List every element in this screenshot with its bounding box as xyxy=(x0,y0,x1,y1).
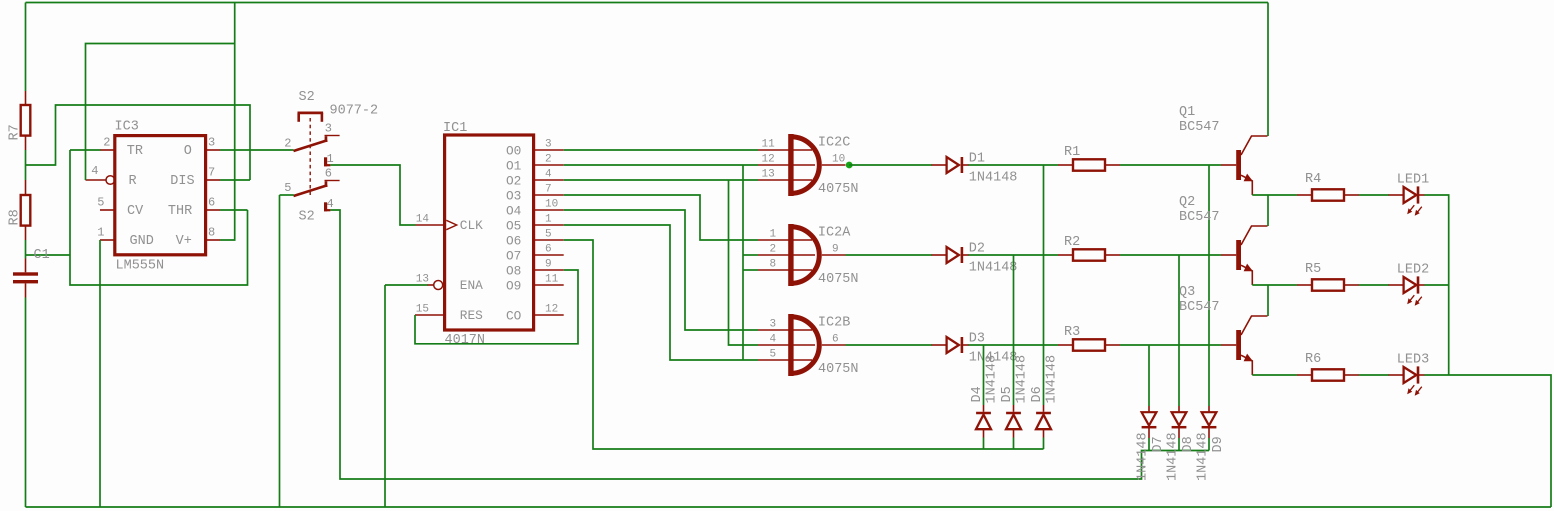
svg-text:1: 1 xyxy=(770,229,777,241)
wire LED3 row to right edge down to ground xyxy=(1425,375,1552,507)
svg-text:Q1: Q1 xyxy=(1179,105,1195,120)
switch pole 5 lever xyxy=(294,185,328,196)
wire R2 to Q2 base xyxy=(1120,254,1221,256)
svg-text:9: 9 xyxy=(832,244,839,256)
svg-text:IC2C: IC2C xyxy=(818,136,850,151)
pin 8 V+ xyxy=(206,239,220,241)
wire O2 to IC2C in3 xyxy=(564,179,758,181)
wire IC2A in2 stub xyxy=(743,254,758,256)
svg-text:R5: R5 xyxy=(1305,262,1321,277)
svg-text:O7: O7 xyxy=(506,249,521,264)
wire R8 to C1 xyxy=(25,240,27,259)
svg-text:14: 14 xyxy=(416,214,430,226)
diode LED3 LED xyxy=(1389,366,1425,395)
svg-text:IC2B: IC2B xyxy=(818,316,850,331)
svg-text:4: 4 xyxy=(91,164,98,178)
svg-text:9: 9 xyxy=(545,259,552,271)
op-amp U IC2C 4075N body xyxy=(788,134,819,196)
svg-text:THR: THR xyxy=(168,204,192,219)
svg-text:4075N: 4075N xyxy=(818,272,859,287)
svg-text:10: 10 xyxy=(545,199,558,211)
svg-text:O9: O9 xyxy=(506,279,521,294)
svg-text:1N4148: 1N4148 xyxy=(969,171,1018,186)
diode LED1 LED xyxy=(1389,186,1425,215)
diode D6 1N4148 xyxy=(1036,405,1051,438)
wire Q2 emitter row xyxy=(1252,284,1297,286)
wire O5 to IC2B in3 xyxy=(564,225,758,360)
pin 11 O9 xyxy=(534,284,564,286)
resistor R6 xyxy=(1297,369,1359,380)
svg-text:D9: D9 xyxy=(1211,436,1226,452)
wire R2 branch down to D8 xyxy=(1178,255,1180,406)
svg-text:6: 6 xyxy=(832,334,839,346)
resistor R1 xyxy=(1058,159,1120,170)
capacitor C1 xyxy=(13,259,38,298)
svg-text:2: 2 xyxy=(545,154,552,166)
pin 7 O3 xyxy=(534,194,564,196)
wire Q1 emitter to Q2 collector xyxy=(1267,195,1269,226)
diode D3 1N4148 xyxy=(932,337,969,353)
svg-text:7: 7 xyxy=(545,184,552,196)
pin 12 input 2 xyxy=(758,164,815,166)
node junction at IC2C output xyxy=(846,162,853,169)
wire top rail down to Q1 collector xyxy=(1267,3,1269,137)
svg-text:Q2: Q2 xyxy=(1179,195,1195,210)
wire top power rail xyxy=(26,2,1269,4)
wire R6 to LED3 xyxy=(1359,374,1389,376)
svg-text:10: 10 xyxy=(832,154,845,166)
wire R7 top to rail xyxy=(25,3,27,92)
pin 1 GND xyxy=(100,239,115,241)
wire R1 to Q1 base xyxy=(1120,164,1221,166)
diode D2 1N4148 xyxy=(932,247,969,263)
svg-text:2: 2 xyxy=(284,137,291,151)
wire Q3 emitter row xyxy=(1252,374,1297,376)
wire junction to DIS loop xyxy=(26,105,251,180)
switch pole 2 lever xyxy=(294,140,328,151)
resistor R3 xyxy=(1058,339,1120,350)
wire R7-R8 junction xyxy=(25,150,27,180)
svg-text:BC547: BC547 xyxy=(1179,300,1220,315)
svg-text:8: 8 xyxy=(208,226,215,240)
resistor R5 xyxy=(1297,279,1359,290)
svg-text:GND: GND xyxy=(130,234,154,249)
wire R3 branch down to D7 xyxy=(1148,345,1150,406)
pin 7 DIS xyxy=(206,179,220,181)
svg-text:5: 5 xyxy=(97,196,104,210)
svg-text:R1: R1 xyxy=(1064,145,1080,160)
wire IC2B out to D3 xyxy=(846,344,933,346)
wire O out to switch xyxy=(220,149,294,151)
pin 8 input 3 xyxy=(758,269,812,271)
wire D3 branch down to D4 xyxy=(983,345,985,405)
svg-text:O4: O4 xyxy=(506,204,522,219)
wire DIS pin to loop xyxy=(220,179,250,181)
pin 15 RES xyxy=(415,314,445,316)
svg-text:9077-2: 9077-2 xyxy=(330,104,379,119)
wire O8 to RES loop xyxy=(415,270,578,344)
wire GND pin down xyxy=(99,240,101,507)
svg-text:BC547: BC547 xyxy=(1179,210,1220,225)
diode D4 1N4148 xyxy=(976,405,991,438)
pin 13 ENA inverted xyxy=(427,281,443,290)
wire contact4 to diode return bus xyxy=(330,210,1209,479)
switch dashed link xyxy=(309,118,311,195)
wire LED1 cathode to return xyxy=(1425,195,1449,375)
wire C1 to ground bus xyxy=(25,298,27,508)
wire O1 branch to IC2A xyxy=(742,165,744,360)
svg-text:R2: R2 xyxy=(1064,235,1080,250)
pin 10 O4 xyxy=(534,209,564,211)
wire O1 to IC2C in2 xyxy=(564,164,758,166)
svg-text:4075N: 4075N xyxy=(818,362,859,377)
svg-text:R7: R7 xyxy=(8,124,23,140)
wire V+ to reset pin xyxy=(220,3,235,241)
svg-text:O5: O5 xyxy=(506,219,521,234)
pin 14 CLK xyxy=(416,220,457,229)
op-amp U IC2A 4075N body xyxy=(788,224,819,286)
svg-text:RES: RES xyxy=(460,308,483,323)
pin 5 input 3 xyxy=(758,359,812,361)
wire R4 to LED1 xyxy=(1359,194,1389,196)
wire Q1 emitter row xyxy=(1252,194,1297,196)
svg-text:1: 1 xyxy=(97,226,104,240)
pin 4 O2 xyxy=(534,179,564,181)
wire IC2A out to D2 xyxy=(846,254,933,256)
pin 1 input 1 xyxy=(758,239,812,241)
wire O6 to lower diode bus xyxy=(564,240,1044,449)
svg-text:2: 2 xyxy=(103,136,110,150)
svg-text:O6: O6 xyxy=(506,234,521,249)
svg-text:1: 1 xyxy=(327,152,334,166)
pin 5 CV xyxy=(100,209,115,211)
pin 2 input 2 xyxy=(758,254,815,256)
svg-text:C1: C1 xyxy=(34,248,50,263)
wire D8 to bus xyxy=(1178,438,1180,451)
svg-text:1: 1 xyxy=(545,214,552,226)
wire D5 to bus xyxy=(1013,438,1015,450)
pin 6 output xyxy=(822,344,846,346)
transistor Q1 BC547 xyxy=(1221,136,1268,195)
pin 3 O0 xyxy=(534,149,564,151)
svg-text:6: 6 xyxy=(325,167,332,181)
svg-text:IC1: IC1 xyxy=(443,121,467,136)
svg-text:4: 4 xyxy=(545,169,552,181)
svg-text:1N4148: 1N4148 xyxy=(1015,355,1030,404)
svg-text:4: 4 xyxy=(327,197,334,211)
wire O0 to IC2C in1 xyxy=(564,149,758,151)
svg-text:S2: S2 xyxy=(299,90,315,105)
pin 4 R inverted xyxy=(86,176,115,185)
svg-text:D7: D7 xyxy=(1151,436,1166,452)
op-amp U IC3 LM555N body xyxy=(115,136,206,255)
wire D2 to R2 xyxy=(969,254,1058,256)
pin 3 O xyxy=(206,149,220,151)
wire Q2 emitter to Q3 collector xyxy=(1267,285,1269,316)
svg-text:12: 12 xyxy=(545,304,558,316)
svg-text:Q3: Q3 xyxy=(1179,285,1195,300)
wire TR-THR vertical xyxy=(70,150,248,285)
wire R5 to LED2 xyxy=(1359,284,1389,286)
svg-text:LED3: LED3 xyxy=(1397,353,1429,368)
wire D7 to bus xyxy=(1148,438,1150,451)
svg-text:CLK: CLK xyxy=(460,218,483,233)
wire IC2C out to D1 xyxy=(849,164,932,166)
svg-text:D4: D4 xyxy=(970,386,985,402)
svg-text:13: 13 xyxy=(416,274,429,286)
svg-text:11: 11 xyxy=(762,139,776,151)
resistor R7 xyxy=(21,91,31,150)
diode D7 1N4148 xyxy=(1142,406,1157,438)
svg-text:4: 4 xyxy=(770,334,777,346)
wire contact1 to CLK xyxy=(330,165,415,225)
svg-text:R8: R8 xyxy=(8,209,23,225)
svg-text:O: O xyxy=(184,144,192,159)
svg-text:2: 2 xyxy=(770,244,777,256)
wire D1 branch down to D6 xyxy=(1043,165,1045,405)
svg-text:1N4148: 1N4148 xyxy=(1045,355,1060,404)
pin 6 O7 xyxy=(534,254,564,256)
pin 2 O1 xyxy=(534,164,564,166)
svg-text:8: 8 xyxy=(770,259,777,271)
svg-text:12: 12 xyxy=(762,154,775,166)
switch contact 6 xyxy=(325,181,340,188)
svg-text:6: 6 xyxy=(545,244,552,256)
svg-text:3: 3 xyxy=(325,122,332,136)
svg-text:BC547: BC547 xyxy=(1179,120,1220,135)
pin 1 O5 xyxy=(534,224,564,226)
svg-text:IC2A: IC2A xyxy=(818,226,851,241)
svg-text:4017N: 4017N xyxy=(445,333,486,348)
diode D5 1N4148 xyxy=(1006,405,1021,438)
pin 11 input 1 xyxy=(758,149,812,151)
svg-text:V+: V+ xyxy=(176,234,192,249)
pin 2 TR xyxy=(100,149,115,151)
wire ENA down to ground bus xyxy=(385,284,428,286)
wire D2 branch down to D5 xyxy=(1013,255,1015,405)
svg-text:11: 11 xyxy=(545,274,559,286)
svg-text:O8: O8 xyxy=(506,264,521,279)
wire THR pin xyxy=(220,209,248,211)
resistor R8 xyxy=(21,180,31,240)
svg-text:3: 3 xyxy=(545,139,552,151)
wire C1 node to TR/THR net xyxy=(26,254,71,256)
svg-text:D8: D8 xyxy=(1181,436,1196,452)
wire O3 to IC2A in1 xyxy=(564,195,758,240)
resistor R4 xyxy=(1297,189,1359,200)
pin 6 THR xyxy=(206,209,220,211)
wire D3 to R3 xyxy=(969,344,1058,346)
diode D1 1N4148 xyxy=(932,157,969,173)
switch contact 1 xyxy=(324,157,330,166)
svg-text:4075N: 4075N xyxy=(818,182,859,197)
svg-text:5: 5 xyxy=(770,349,777,361)
svg-text:CV: CV xyxy=(127,204,144,219)
wire pole5 down to ground xyxy=(280,194,294,196)
svg-text:13: 13 xyxy=(762,169,775,181)
wire D4 to bus xyxy=(983,438,985,450)
svg-text:R6: R6 xyxy=(1305,352,1321,367)
svg-text:D5: D5 xyxy=(1000,386,1015,402)
svg-text:R4: R4 xyxy=(1305,172,1321,187)
svg-text:D6: D6 xyxy=(1030,386,1045,402)
svg-text:IC3: IC3 xyxy=(115,120,139,135)
svg-text:O2: O2 xyxy=(506,174,521,189)
svg-text:O1: O1 xyxy=(506,159,522,174)
pin 9 output xyxy=(822,254,846,256)
svg-text:O0: O0 xyxy=(506,144,521,159)
wire IC2A in3 stub xyxy=(743,269,758,271)
diode D9 1N4148 xyxy=(1202,406,1217,438)
op-amp U IC2B 4075N body xyxy=(788,314,819,376)
wire O2 branch to IC2B in2 xyxy=(729,180,759,345)
pin 10 output xyxy=(822,164,846,166)
svg-text:LM555N: LM555N xyxy=(116,259,165,274)
pin 3 input 1 xyxy=(758,329,812,331)
svg-text:7: 7 xyxy=(208,166,215,180)
pin 12 CO xyxy=(534,314,564,316)
wire R1 branch down to D9 xyxy=(1208,165,1210,406)
pin 4 input 2 xyxy=(758,344,815,346)
pin 9 O8 xyxy=(534,269,564,271)
svg-text:LED2: LED2 xyxy=(1397,263,1429,278)
svg-text:15: 15 xyxy=(416,304,429,316)
svg-text:TR: TR xyxy=(127,144,143,159)
pin 13 input 3 xyxy=(758,179,812,181)
wire D6 to bus xyxy=(1043,438,1045,450)
svg-text:R: R xyxy=(129,174,137,189)
diode LED2 LED xyxy=(1389,276,1425,305)
transistor Q3 BC547 xyxy=(1221,316,1268,375)
wire R3 to Q3 base xyxy=(1120,344,1221,346)
svg-text:3: 3 xyxy=(208,136,215,150)
svg-text:DIS: DIS xyxy=(170,174,194,189)
svg-text:5: 5 xyxy=(545,229,552,241)
wire O4 to IC2B in1 xyxy=(564,210,758,330)
resistor R2 xyxy=(1058,249,1120,260)
svg-text:R3: R3 xyxy=(1064,325,1080,340)
svg-text:6: 6 xyxy=(208,196,215,210)
svg-text:3: 3 xyxy=(770,319,777,331)
wire LED2 cathode to return xyxy=(1425,284,1449,286)
svg-text:LED1: LED1 xyxy=(1397,173,1429,188)
transistor Q2 BC547 xyxy=(1221,226,1268,285)
svg-text:CO: CO xyxy=(506,309,522,324)
wire V+ branch to reset pin 4 xyxy=(86,44,235,181)
switch S2 actuator bracket xyxy=(298,113,324,122)
wire D9 to bus xyxy=(1208,438,1210,451)
svg-text:S2: S2 xyxy=(299,210,315,225)
wire bottom ground bus xyxy=(26,506,1552,508)
switch contact 3 xyxy=(325,136,340,143)
svg-text:5: 5 xyxy=(284,181,291,195)
wire D1 to R1 xyxy=(969,164,1058,166)
svg-text:1N4148: 1N4148 xyxy=(985,355,1000,404)
svg-text:O3: O3 xyxy=(506,189,521,204)
wire TR net xyxy=(70,149,101,151)
pin 5 O6 xyxy=(534,239,564,241)
diode D8 1N4148 xyxy=(1172,406,1187,438)
op-amp U IC1 4017N body xyxy=(445,135,534,330)
svg-text:1N4148: 1N4148 xyxy=(969,261,1018,276)
svg-text:ENA: ENA xyxy=(460,278,483,293)
switch contact 4 xyxy=(324,202,330,211)
